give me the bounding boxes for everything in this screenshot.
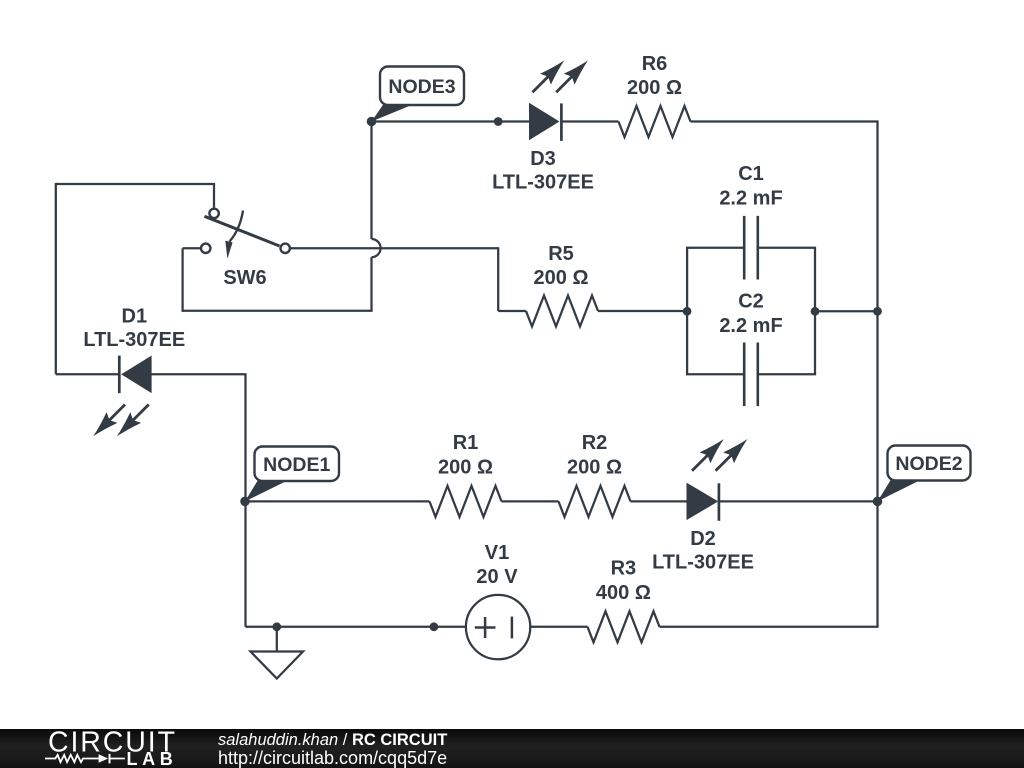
wire switch top terminal [213,184,215,208]
svg-text:200 Ω: 200 Ω [534,267,589,289]
wire NODE3 to D3 anode [372,120,531,122]
svg-text:LAB: LAB [127,749,178,768]
svg-text:R3: R3 [611,558,637,580]
switch SW6 blade [205,216,280,246]
wire left to D1 cathode [56,373,120,375]
node NODE3 label pointer wedge [372,104,415,122]
resistor R1 zigzag [430,486,502,517]
wire NODE1 vertical upper [244,373,246,501]
wire capacitor network to right vertical [815,310,878,312]
svg-text:NODE1: NODE1 [263,454,330,476]
wire D2 to NODE2 [719,500,878,502]
wire top horizontal to left loop [56,183,215,185]
wire corner down to R5 level [497,247,499,311]
wire NODE3 vertical upper [370,122,372,240]
LED D1 cathode bar [118,356,121,394]
node NODE2 label box [888,446,971,481]
switch SW6 left terminal circle [201,244,210,253]
CircuitLab logo schematic squiggle [45,755,125,762]
wire R6 to top-right corner [691,120,878,122]
svg-text:LTL-307EE: LTL-307EE [492,172,594,194]
wire NODE1 to R1 [246,500,430,502]
ground triangle [251,652,304,679]
wire NODE1 vertical lower [244,501,246,626]
LED D1 emission arrow 1 [107,405,125,423]
V1 plus sign vertical [484,617,487,638]
capacitor C1 left plate [743,216,746,280]
wire lower loop to switch left terminal [183,247,200,249]
junction dot on top wire [494,117,503,126]
svg-text:NODE2: NODE2 [895,453,962,475]
svg-text:R6: R6 [642,53,668,75]
junction dot capacitor network right [811,307,820,316]
node NODE2 junction dot [873,497,883,507]
svg-text:NODE3: NODE3 [388,76,455,98]
svg-text:D2: D2 [690,528,716,550]
wire D1 anode to NODE1 corner [151,373,245,375]
resistor R5 zigzag [526,296,598,327]
wire R1 to R2 [502,500,559,502]
switch SW6 actuation arrowhead [225,241,232,259]
svg-text:2.2 mF: 2.2 mF [719,315,782,337]
resistor R3 zigzag [588,611,660,642]
svg-text:C2: C2 [738,291,764,313]
LED D1 emission arrow 2 [131,405,149,423]
wire NODE3 vertical lower [370,257,372,311]
wire C1 left lead [686,247,744,249]
V1 minus bar [511,617,514,639]
svg-text:400 Ω: 400 Ω [596,582,651,604]
wire right vertical top segment [876,120,878,311]
svg-text:C1: C1 [738,163,764,185]
resistor R6 zigzag [619,106,691,137]
LED D2 emission arrow 2 [716,453,734,471]
LED D3 cathode bar [560,103,563,140]
svg-text:SW6: SW6 [223,267,266,289]
capacitor C2 right plate [756,343,759,407]
svg-text:2.2 mF: 2.2 mF [719,188,782,210]
wire bottom from NODE1 corner to V1 [246,626,467,628]
wire capacitor network left edge [686,248,688,375]
node NODE2 label pointer wedge [878,480,922,502]
node NODE3 junction dot [367,117,377,127]
footer bar [0,729,1024,768]
LED D2 emission arrow 1 [692,453,710,471]
wire C2 left lead [686,373,744,375]
svg-text:D3: D3 [530,148,556,170]
junction dot ground tap [272,622,281,631]
ground stem [276,627,278,652]
LED D3 emission arrow 1 [533,75,551,93]
node NODE3 label box [380,67,464,106]
junction dot right wire at C network [873,307,882,316]
LED D2 cathode bar [718,483,721,521]
svg-text:R1: R1 [453,432,479,454]
wire left vertical [55,183,57,374]
capacitor C2 left plate [743,343,746,407]
svg-text:salahuddin.khan / RC CIRCUIT: salahuddin.khan / RC CIRCUIT [218,731,447,749]
svg-text:200 Ω: 200 Ω [438,457,493,479]
wire R2 to D2 [631,500,689,502]
CircuitLab logo diode bar [109,754,111,764]
svg-text:200 Ω: 200 Ω [567,457,622,479]
capacitor C1 right plate [756,216,759,280]
wire capacitor network right edge [814,248,816,375]
wire R3 to bottom-right corner [660,626,879,628]
wire hop over switch wire [372,239,381,257]
wire lower loop vertical [181,248,183,312]
LED D2 triangle [687,484,717,520]
wire R5 to capacitor network [598,310,687,312]
junction dot V1 negative lead [430,622,439,631]
node NODE1 label pointer wedge [245,480,289,501]
LED D1 triangle [122,356,151,392]
switch SW6 top terminal circle [209,209,218,218]
wire lower loop horizontal [183,310,373,312]
svg-text:20 V: 20 V [476,566,518,588]
svg-text:D1: D1 [122,306,148,328]
svg-text:LTL-307EE: LTL-307EE [83,329,185,351]
wire C1 right lead [758,247,816,249]
CircuitLab logo diode triangle [99,754,109,763]
wire right vertical bottom segment [876,501,878,626]
voltage source V1 circle [466,595,530,659]
V1 plus sign horizontal [475,626,496,629]
wire D3 to R6 [561,120,618,122]
LED D3 emission arrow 2 [556,75,574,93]
svg-text:R5: R5 [548,243,574,265]
node NODE1 label box [255,447,340,482]
switch SW6 actuation arrow arc [230,211,244,242]
svg-text:200 Ω: 200 Ω [627,77,682,99]
node NODE1 junction dot [240,497,250,507]
wire C2 right lead [758,373,816,375]
wire V1 to R3 [529,626,587,628]
wire corner to R5 [498,310,526,312]
wire right vertical middle segment [876,311,878,501]
junction dot capacitor network left [683,307,692,316]
svg-text:http://circuitlab.com/cqq5d7e: http://circuitlab.com/cqq5d7e [218,748,447,768]
switch SW6 right terminal circle [281,244,290,253]
svg-text:V1: V1 [485,542,509,564]
svg-text:R2: R2 [582,432,608,454]
resistor R2 zigzag [559,486,631,517]
svg-text:LTL-307EE: LTL-307EE [652,552,754,574]
LED D3 triangle [530,104,559,140]
wire switch right terminal run [291,247,498,249]
